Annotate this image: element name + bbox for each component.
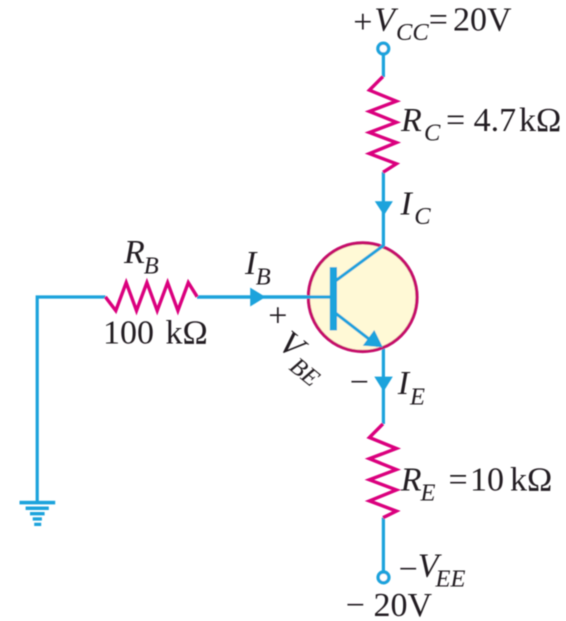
svg-text:R: R: [400, 102, 422, 139]
svg-text:C: C: [414, 203, 431, 230]
svg-text:−: −: [399, 551, 418, 588]
svg-text:10: 10: [470, 462, 504, 499]
svg-text:20V: 20V: [453, 1, 512, 38]
svg-text:kΩ: kΩ: [166, 315, 208, 352]
svg-text:I: I: [400, 186, 414, 223]
svg-text:kΩ: kΩ: [519, 102, 561, 139]
svg-text:+: +: [353, 4, 372, 41]
svg-text:R: R: [123, 234, 145, 271]
svg-text:=: =: [429, 1, 448, 38]
svg-text:EE: EE: [435, 566, 466, 593]
svg-text:−: −: [350, 364, 369, 401]
svg-text:CC: CC: [396, 19, 429, 46]
svg-text:+: +: [268, 297, 287, 334]
svg-text:C: C: [424, 120, 441, 147]
svg-text:B: B: [256, 263, 271, 290]
svg-text:R: R: [400, 462, 422, 499]
svg-text:E: E: [409, 383, 425, 410]
svg-text:=: =: [449, 462, 468, 499]
svg-text:E: E: [420, 479, 436, 506]
svg-text:kΩ: kΩ: [510, 462, 552, 499]
svg-text:= 4.7: = 4.7: [446, 102, 516, 139]
svg-text:I: I: [397, 365, 411, 402]
svg-text:− 20V: − 20V: [346, 587, 433, 621]
svg-text:B: B: [144, 252, 159, 279]
svg-text:100: 100: [103, 315, 154, 352]
